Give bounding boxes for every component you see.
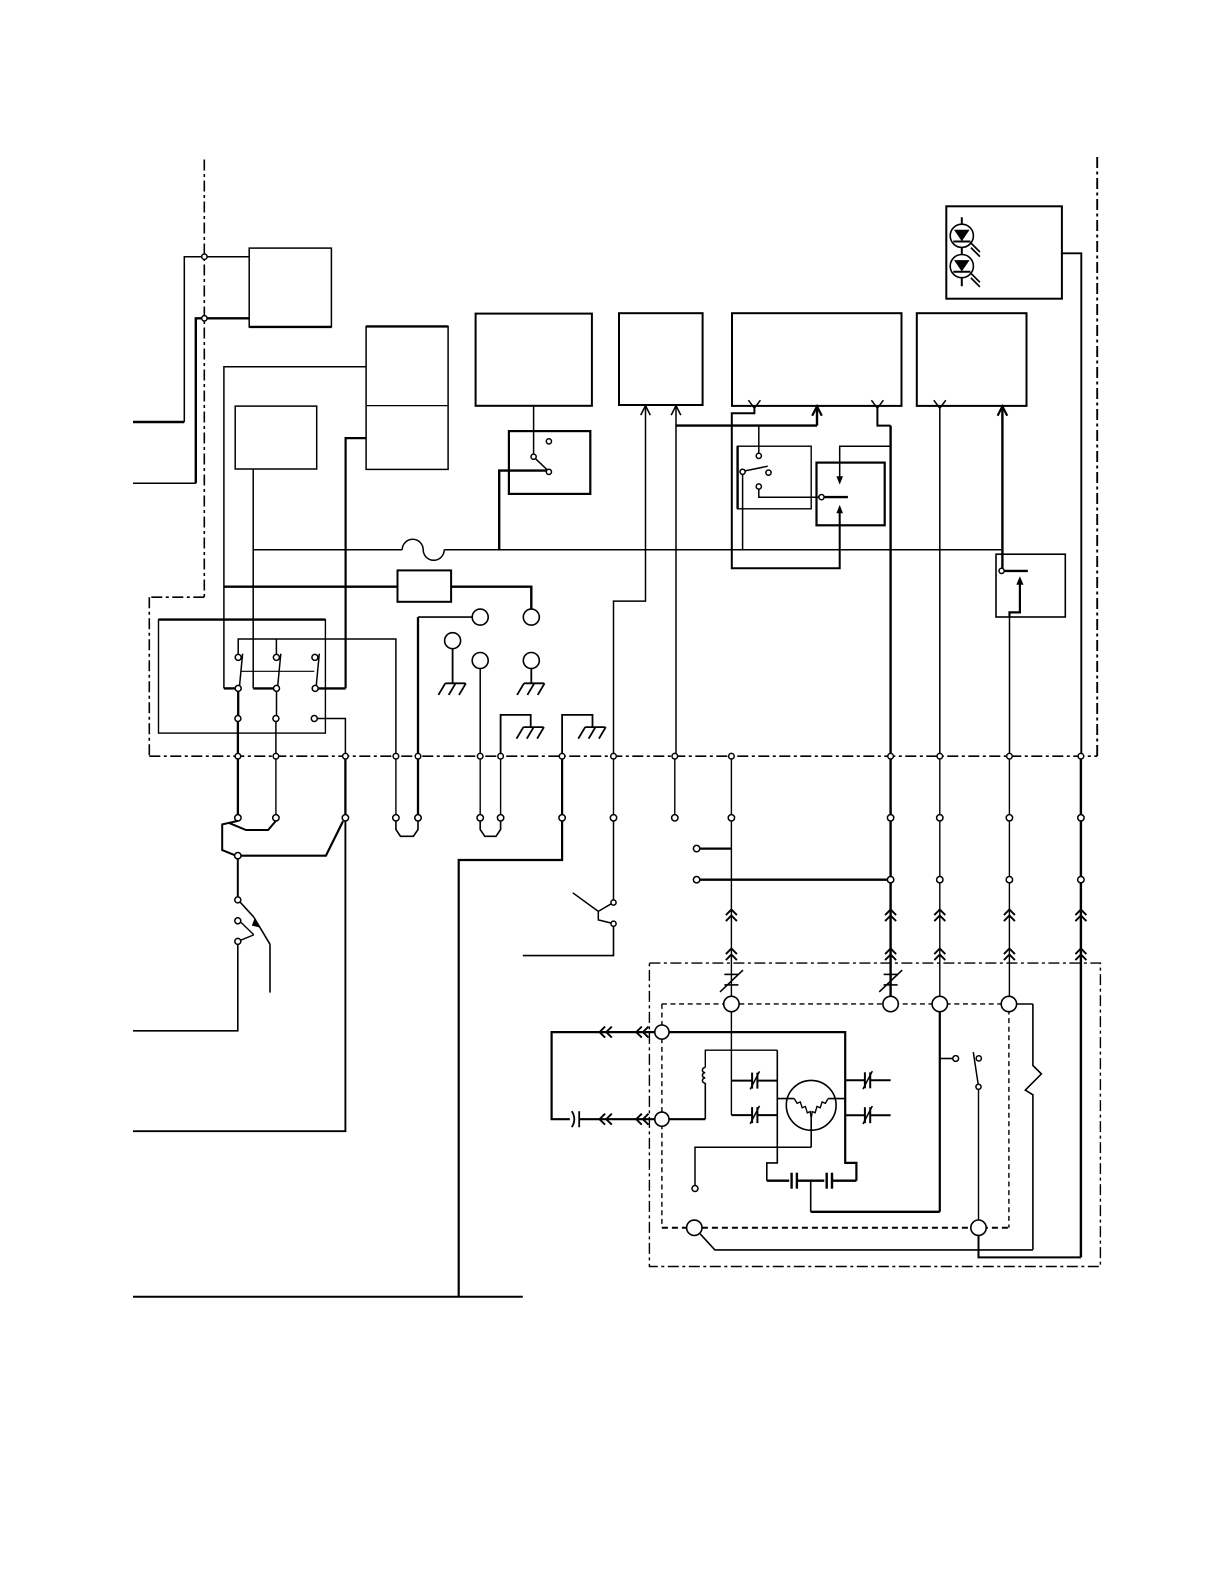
wire K2 pole1 blade — [240, 654, 243, 687]
wire input A riser — [184, 257, 249, 422]
node K2 pole2 top contact — [273, 654, 279, 660]
box relay K2 — [159, 620, 326, 734]
wire S5 drop — [978, 1089, 980, 1220]
box oscillator shield (dashed) — [662, 1004, 1009, 1228]
node osc ring N2 (top) — [883, 996, 898, 1011]
fuse F1 — [402, 539, 444, 560]
box U1 (top-left unit) — [249, 248, 331, 327]
box solenoid L1 — [817, 463, 885, 526]
node connector pin P12 — [887, 815, 893, 821]
wire trimmer column left — [767, 1050, 778, 1181]
wire jumper loop P4-P5 — [396, 821, 418, 836]
node connector pin P7 — [497, 815, 503, 821]
wire test stub — [940, 1058, 953, 1060]
fuse F1 supply line — [253, 549, 402, 551]
node S1 NO contact — [546, 469, 551, 474]
wire through-lead — [395, 759, 397, 815]
wire K3 left pin drop — [742, 474, 744, 549]
wire through-lead — [561, 759, 563, 815]
wire U3 bottom lead — [252, 469, 254, 688]
node switch S5 upper contact — [976, 1056, 981, 1061]
node K3 lower pin — [756, 484, 761, 489]
node boundary terminal T6 — [477, 753, 483, 759]
arrow into U6 center — [812, 406, 822, 416]
wire S5 lever — [973, 1052, 978, 1084]
cable shield chevrons — [934, 910, 945, 916]
wire LED series line — [961, 217, 963, 286]
cable shield chevrons — [1075, 910, 1086, 916]
wire cable drop 890 lower — [889, 883, 891, 996]
wire U5 left lead — [614, 406, 646, 757]
node K2 pin1 — [235, 716, 241, 722]
wire S1 arm — [535, 459, 551, 474]
wire cable drop 1081 upper — [1080, 821, 1082, 877]
wire P1 fork left — [222, 821, 238, 855]
connector ring C3 — [445, 633, 461, 649]
node L1 pin — [819, 495, 824, 500]
node boundary terminal T4 — [393, 753, 399, 759]
connector ring C5 — [523, 653, 539, 669]
cable entry mark — [724, 973, 738, 975]
node boundary terminal T2 — [273, 753, 279, 759]
node K2 pole2 lower contact — [274, 685, 280, 691]
wire through-lead — [613, 759, 615, 815]
wire cable drop 1081 lower — [1080, 883, 1082, 1258]
wire resistor return — [700, 1234, 1033, 1250]
node connector pin P5 — [415, 815, 421, 821]
wire K2 coupling bar — [241, 670, 314, 672]
wire through-lead — [939, 759, 941, 815]
node resonator stem terminal — [692, 1186, 698, 1192]
resistor R1 — [1025, 1004, 1041, 1250]
node boundary terminal T13 — [937, 753, 943, 759]
node connector pin P3 — [342, 815, 348, 821]
wire LED unit output — [1062, 253, 1081, 756]
wire ground stub 1 — [501, 715, 531, 756]
node boundary terminal T7 — [498, 753, 504, 759]
node K2 pole3 top contact — [312, 654, 318, 660]
node connector pin P6 — [477, 815, 483, 821]
node boundary terminal T1 — [235, 753, 241, 759]
node S4 upper contact — [611, 900, 616, 905]
wire through-lead — [1080, 759, 1082, 815]
wire S3 contact F stub — [241, 922, 254, 935]
arrow into U7 right — [998, 406, 1008, 416]
wire contact rail — [238, 639, 396, 756]
wire through-lead — [500, 759, 502, 815]
wire S2 contact bar — [1004, 570, 1028, 572]
arrow Y1 from U6 — [748, 400, 760, 408]
node connector pin P4 — [393, 815, 399, 821]
node boundary terminal T10 — [672, 753, 678, 759]
inductor L2 — [669, 1118, 705, 1120]
wire junction D to P3 — [241, 821, 343, 855]
node pin ring 1009 — [1006, 877, 1012, 883]
wire C4 drop to boundary — [479, 669, 481, 757]
node switch S5 lower contact — [976, 1084, 981, 1089]
wire boundary dash-dot right vertical — [1096, 157, 1098, 756]
node boundary terminal T12 — [888, 753, 894, 759]
wire Y2 jog — [877, 408, 890, 425]
node S1 pivot — [531, 454, 536, 459]
trimmer capacitor CT4 — [845, 1114, 865, 1116]
capacitor C7 C8 bus — [767, 1179, 789, 1181]
wire through-lead — [275, 759, 277, 815]
node connector pin P9 — [610, 815, 616, 821]
wire S2 plunger — [1010, 584, 1020, 618]
cable shield chevrons — [1004, 910, 1015, 916]
wire pin1 drop — [237, 722, 239, 757]
wire K3 to L1 pin — [759, 489, 819, 497]
wire L1 bottom stem — [839, 512, 841, 526]
wire C5 ground stub — [530, 669, 532, 684]
wire stub A — [700, 847, 732, 849]
node K2 pole3 lower contact — [312, 685, 318, 691]
node osc ring N6 (left lower) — [655, 1112, 669, 1126]
wire K2 pole2 blade — [278, 654, 281, 687]
arrow Y2 from U6 — [871, 400, 883, 408]
box relay K3 — [738, 446, 812, 509]
wire osc left loop top — [552, 1032, 655, 1119]
wire pole1 feed stub — [224, 687, 235, 689]
arrow S2 plunger up — [1016, 576, 1023, 585]
wire S2 drop to boundary — [1009, 617, 1011, 756]
wire P8 heavy route — [459, 821, 562, 1297]
node pin ring 1081 — [1078, 877, 1084, 883]
wire through-lead — [1008, 759, 1010, 815]
trimmer capacitor CT3 — [845, 1079, 865, 1081]
node K3 right contact — [766, 470, 771, 475]
connector ring C2 — [523, 609, 539, 625]
node boundary terminal T5 — [415, 753, 421, 759]
wire through-lead — [237, 759, 239, 815]
node junction ring 890 — [887, 877, 893, 883]
wire S3 output to left — [133, 944, 238, 1030]
node test stub ring — [953, 1056, 959, 1062]
wire heavy drop 890 — [889, 426, 891, 757]
wire jumper loop P6-P7 — [480, 821, 500, 836]
wire S3 contact G stub — [241, 935, 254, 940]
node boundary terminal T9 — [611, 753, 617, 759]
node S1 NC contact — [546, 439, 551, 444]
wire S4 lever — [573, 893, 599, 912]
node boundary terminal T3 — [343, 753, 349, 759]
node connector pin P8 — [559, 815, 565, 821]
wire boundary dash-dot vertical (top-left frame) — [203, 160, 205, 598]
node junction D — [235, 853, 241, 859]
wire pole3 feed stub — [318, 687, 345, 689]
wire S4 output route — [523, 926, 614, 955]
node osc ring N4 (top corner) — [1001, 996, 1016, 1011]
wire through-lead — [479, 759, 481, 815]
node S2 pin — [999, 568, 1004, 573]
wire pin2 drop — [275, 722, 277, 757]
node osc ring N1 (top) — [724, 996, 739, 1011]
wire osc N1 drop — [730, 1012, 732, 1115]
wire junction D drop — [237, 859, 239, 897]
wire fuse line to right — [444, 549, 1002, 551]
wire S3 common link — [240, 902, 254, 917]
wire S3 blade — [254, 917, 270, 944]
wire U6 center lead — [816, 406, 818, 426]
LED D1 — [950, 224, 973, 247]
wire heavy feed left — [224, 586, 398, 588]
trimmer capacitor CT1 — [731, 1080, 752, 1082]
wire C1 lead left and drop — [418, 616, 472, 618]
box U5 — [619, 313, 703, 405]
wire osc heavy top line — [669, 1032, 856, 1181]
node S3 contact F — [235, 918, 241, 924]
wire pole1 to pin1 — [237, 691, 239, 715]
node S3 common — [235, 897, 241, 903]
arrow L1 plunger down — [836, 476, 843, 484]
connector ring C4 — [472, 653, 488, 669]
trimmer capacitor CT2 — [731, 1114, 752, 1116]
wire chassis boundary horizontal — [149, 755, 1097, 757]
box S1 (interlock switch) — [509, 431, 590, 494]
wire boundary dash-dot jog — [149, 596, 204, 598]
wire input B horizontal — [133, 482, 196, 484]
relay coil K1 — [398, 570, 452, 601]
cable shield chevrons — [726, 910, 737, 916]
box switch S2 — [996, 554, 1065, 617]
wire ground stub 2 — [562, 715, 592, 756]
wire U7 left lead drop — [939, 408, 941, 756]
wire through-lead — [889, 759, 891, 815]
wire osc N3 drop — [939, 1012, 941, 1212]
wire cable drop 939 lower — [939, 883, 941, 996]
wire C3 ground stub — [452, 649, 454, 684]
wire pole2 riser — [275, 639, 277, 654]
wire bottom rail — [133, 1296, 523, 1298]
wire boundary dash-dot left vertical — [148, 597, 150, 756]
cable chevrons top loop — [600, 1027, 606, 1038]
wire capacitor mid-tap — [810, 1181, 812, 1212]
node K2 pin3 — [311, 716, 317, 722]
wire pole2 feed stub — [253, 687, 273, 689]
wire osc N4 right lead — [1017, 1003, 1033, 1005]
arrow L1 plunger up — [836, 505, 843, 513]
node K2 pole1 top contact — [235, 654, 241, 660]
wire L1 contact bar — [824, 496, 848, 498]
cable entry mark — [884, 973, 898, 975]
node osc ring N5 (left upper) — [655, 1025, 669, 1039]
node boundary terminal T11 — [729, 753, 735, 759]
box U6 — [732, 313, 902, 406]
node S4 lower contact — [611, 921, 616, 926]
wire S4 bracket — [598, 904, 611, 923]
wire cable drop 1009 upper — [1008, 821, 1010, 877]
node osc ring N8 (bottom right) — [971, 1220, 986, 1235]
box U4 — [476, 314, 592, 406]
node connector pin P10 — [672, 815, 678, 821]
wire U2 lower-left lead — [346, 438, 367, 688]
wire S3 blade drop — [269, 944, 271, 992]
resonator X1 (tuning fork) — [786, 1080, 836, 1130]
wire heavy return 1211 — [811, 1211, 940, 1213]
node K2 pin2 — [273, 716, 279, 722]
ground boundary 1 — [523, 726, 543, 728]
wire S1 common feed — [499, 471, 546, 550]
box U2 (two-section unit) — [366, 326, 448, 469]
wire cable drop 890 upper — [889, 821, 891, 877]
LED D2 — [950, 255, 973, 278]
arrow into U5 right — [671, 406, 681, 416]
wire cable drop 939 upper — [939, 821, 941, 877]
wire U4 to S1 — [533, 406, 535, 454]
wire K2 pole3 blade — [316, 654, 319, 687]
node connector pin P2 — [273, 815, 279, 821]
node S3 contact G — [235, 938, 241, 944]
node connector pin P1 — [235, 815, 241, 821]
node B on frame line — [202, 316, 207, 321]
node boundary terminal T14 — [1007, 753, 1013, 759]
node connector pin P15 — [1078, 815, 1084, 821]
node A on frame line — [202, 254, 207, 259]
ground at C3 — [445, 682, 465, 684]
wire cable drop 1009 lower — [1008, 883, 1010, 996]
box U3 — [235, 406, 317, 469]
wire pin3 jog and drop — [317, 719, 345, 757]
wire L1 top lead — [840, 446, 891, 477]
wire stub B — [700, 879, 891, 881]
node stub ring A — [693, 845, 699, 851]
node connector pin P14 — [1006, 815, 1012, 821]
wire Y1 path to solenoid — [732, 408, 840, 568]
node K2 pole1 lower contact — [235, 685, 241, 691]
wire P2 fork — [229, 821, 276, 830]
node boundary terminal T15 — [1078, 753, 1084, 759]
cable shield chevrons — [885, 910, 896, 916]
wire through-lead — [730, 759, 732, 815]
box U7 — [917, 313, 1027, 406]
node boundary terminal T8 — [559, 753, 565, 759]
ground boundary 2 — [585, 726, 605, 728]
wire osc left loop bottom — [579, 1118, 655, 1120]
wire U5 right lead — [675, 406, 677, 757]
arrow into U5 left — [641, 406, 651, 416]
wire through-lead — [674, 759, 676, 815]
wire U7 right lead — [1001, 406, 1003, 568]
node osc ring N3 (top) — [932, 996, 947, 1011]
node connector pin P13 — [937, 815, 943, 821]
arrow S3 blade — [252, 918, 259, 927]
wire resonator stem route — [695, 1147, 811, 1185]
wire K3 top pin riser — [758, 426, 760, 454]
wire cable drop 731 — [730, 821, 732, 996]
node pin ring 939 — [937, 877, 943, 883]
wire through-lead — [344, 759, 346, 815]
box oscillator unit outline — [649, 963, 1100, 1266]
wire K3 blade — [745, 466, 768, 471]
node K3 left pin — [740, 469, 745, 474]
wire heavy feed right to C2 — [451, 587, 531, 609]
wire heavy bus 425 — [676, 424, 817, 426]
wire through-lead — [417, 759, 419, 815]
capacitor C6 (feedthrough) — [572, 1111, 575, 1127]
node K3 top pin — [756, 453, 761, 458]
node osc ring N7 (bottom left) — [687, 1220, 702, 1235]
connector ring C1 — [472, 609, 488, 625]
wire P3 drop to rail — [133, 821, 345, 1131]
node stub ring B — [693, 877, 699, 883]
arrow Y3 from U7 — [934, 400, 946, 408]
wire input B riser — [196, 318, 249, 483]
ground at C5 — [524, 682, 544, 684]
cable chevrons bottom loop — [600, 1114, 606, 1125]
node connector pin P11 — [728, 815, 734, 821]
wire pole2 to pin2 — [276, 691, 278, 715]
wire U2 divider — [366, 405, 448, 407]
box LED unit U8 — [946, 206, 1062, 298]
wire P9 to switch — [613, 821, 615, 900]
wire U2 upper-left lead — [224, 367, 366, 689]
wire bottom-right circle drop — [979, 1235, 1081, 1257]
wire input A horizontal — [133, 421, 184, 423]
